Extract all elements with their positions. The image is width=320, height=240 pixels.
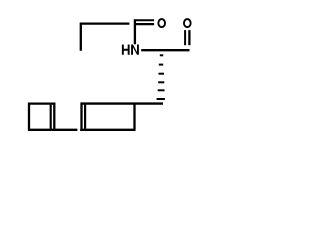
O label (amide) : drawn as ring path	[157, 18, 166, 28]
C=O amide lower line	[136, 23, 154, 25]
N-CH-CHO backbone bond	[141, 49, 189, 51]
propionyl chain: ethyl vertical + horizontal bond	[81, 24, 130, 51]
bottom bond line left segment (ring A bottom + connector bond)	[28, 129, 77, 131]
ring B left edge	[80, 103, 82, 131]
cyclobutene ring A left edge	[28, 103, 30, 131]
hashed wedge dash 5	[158, 89, 165, 91]
ring B inner double-bond line	[84, 105, 86, 129]
hashed wedge dash 6	[157, 98, 165, 100]
hashed wedge dash 2	[159, 64, 163, 66]
HN label: N glyph	[131, 45, 139, 55]
ring A top edge	[28, 102, 55, 104]
ring B bottom edge segment	[80, 129, 135, 131]
ring B right edge	[133, 104, 135, 130]
HN label: H glyph	[122, 45, 130, 55]
aldehyde C=O right line	[188, 30, 190, 45]
amide C-N vertical bond	[134, 19, 136, 44]
O label (aldehyde)	[183, 18, 191, 28]
C=O amide upper line	[134, 19, 154, 21]
ring A inner double-bond line	[50, 105, 52, 129]
hashed wedge dash 1	[160, 54, 163, 56]
aldehyde C=O left line	[184, 30, 186, 45]
hashed wedge dash 4	[158, 81, 164, 83]
hashed wedge dash 3	[159, 73, 165, 75]
ring B top edge + bond to wedge CH2 atom	[81, 102, 164, 104]
ring A right edge	[53, 103, 55, 131]
